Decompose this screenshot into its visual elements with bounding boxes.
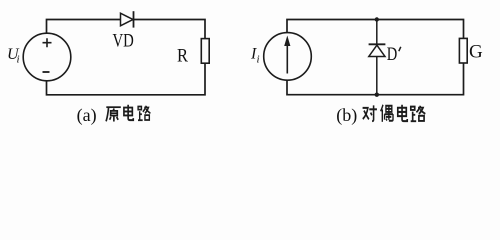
svg-text:(a): (a) — [77, 105, 97, 126]
svg-text:VD: VD — [113, 31, 134, 52]
svg-text:D: D — [387, 44, 398, 65]
svg-text:G: G — [469, 42, 483, 63]
svg-text:i: i — [257, 54, 260, 66]
svg-text:R: R — [177, 46, 188, 67]
svg-text:(b): (b) — [336, 105, 357, 126]
svg-text:i: i — [17, 54, 20, 66]
